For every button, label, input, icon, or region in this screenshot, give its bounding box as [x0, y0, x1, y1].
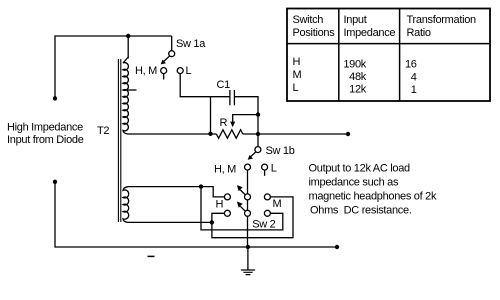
switch Sw 1b arrowhead [248, 155, 253, 160]
node: junction dot A (secondary top) [199, 184, 203, 188]
transformer T2 secondary winding [123, 187, 129, 223]
node: junction dot at R right / Sw 1b [256, 132, 260, 136]
node: ground bus right end dot [335, 245, 339, 249]
svg-text:190k: 190k [343, 58, 366, 70]
wire: output bus right of R [243, 133, 348, 135]
wire: junction A to Sw 2a H contact [201, 187, 225, 197]
table header divider [287, 43, 490, 45]
wire: secondary top to junction A [127, 186, 201, 188]
svg-text:H, M: H, M [135, 65, 157, 77]
svg-text:R: R [220, 117, 228, 129]
wire: Sw 2 common down to ground bus [247, 216, 249, 247]
svg-text:impedance such as: impedance such as [309, 177, 399, 189]
switch Sw 1a pivot [169, 51, 175, 57]
node: wiper junction dot [256, 112, 260, 116]
ground symbol [241, 270, 255, 275]
svg-text:Sw 2: Sw 2 [252, 218, 275, 230]
switch Sw 2b contact H [224, 210, 230, 216]
switch Sw 1b contact H,M [245, 164, 251, 170]
node: junction dot B (secondary bottom) [210, 220, 214, 224]
switch Sw 2a pivot [245, 194, 251, 200]
svg-text:Switch: Switch [293, 14, 324, 26]
table column divider 2 [399, 9, 401, 102]
svg-text:Ratio: Ratio [407, 27, 431, 39]
transformer T2 primary winding [123, 57, 128, 134]
wire: junction A loop to Sw 2b M contact [201, 187, 283, 230]
node: junction dot top rail to transformer primary [126, 34, 130, 38]
wire: secondary bottom to junction B [128, 221, 212, 223]
svg-text:H, M: H, M [214, 163, 236, 175]
node: output terminal dot [346, 132, 350, 136]
node: junction dot at R left end [208, 132, 212, 136]
svg-text:L: L [293, 82, 299, 94]
switch Sw 1a contact H,M [161, 68, 167, 74]
svg-text:Impedance: Impedance [344, 27, 396, 39]
wire: Sw 1a H,M contact stub [163, 74, 165, 80]
svg-text:Input: Input [344, 14, 367, 26]
svg-text:High Impedance: High Impedance [7, 122, 83, 134]
svg-text:L: L [186, 65, 192, 77]
switch Sw 2a contact M [264, 194, 270, 200]
table: switch positions [287, 9, 490, 102]
svg-text:T2: T2 [97, 125, 109, 137]
wire: C1 right plate to Sw 1b vertical [234, 97, 258, 147]
wire: Sw 1b H,M contact down to Sw 2 common [247, 170, 249, 194]
svg-text:Sw 1a: Sw 1a [176, 38, 206, 50]
node: ground bus junction dot [246, 245, 250, 249]
arrowhead: wiper arrow onto R [230, 122, 235, 128]
wire: junction B up to Sw 2b H contact [212, 213, 225, 222]
node: input - terminal dot [53, 180, 57, 184]
wire: primary tap stub [123, 89, 136, 91]
switch Sw 1b wiper arm [249, 152, 256, 158]
switch Sw 2b pivot [245, 210, 251, 216]
switch Sw 2a arrowhead [237, 185, 243, 191]
svg-text:C1: C1 [217, 79, 231, 91]
wire: Sw 2 common between poles [247, 200, 249, 211]
switch Sw 2b contact M [264, 210, 270, 216]
svg-text:12k: 12k [349, 84, 367, 96]
wire: junction B loop to Sw 2a M contact [212, 197, 293, 238]
svg-text:magnetic headphones of 2k: magnetic headphones of 2k [309, 191, 437, 203]
svg-text:Output to 12k AC load: Output to 12k AC load [309, 163, 411, 175]
wire: ground stem [247, 247, 249, 270]
svg-text:Positions: Positions [293, 27, 336, 39]
svg-text:Ohms DC resistance.: Ohms DC resistance. [310, 205, 412, 217]
switch Sw 1a arrowhead [161, 60, 166, 65]
svg-text:M: M [273, 198, 282, 210]
wire: Sw 1b L contact stub [264, 170, 266, 176]
svg-text:1: 1 [411, 84, 417, 96]
wire: input bottom lead and ground bus [55, 182, 337, 247]
svg-text:Input from Diode: Input from Diode [7, 134, 84, 146]
wire: Sw 1a L contact to C1 / R node [180, 74, 230, 97]
wire: potentiometer wiper lead [233, 115, 258, 122]
wire: output bus left of R [127, 133, 216, 135]
switch Sw 1a wiper arm [163, 56, 170, 63]
svg-text:48k: 48k [349, 71, 367, 83]
svg-text:M: M [293, 69, 302, 81]
transformer T2 core [118, 59, 120, 222]
capacitor C1 [230, 90, 235, 105]
node: input + terminal dot [53, 96, 57, 100]
resistor R zigzag [216, 130, 243, 138]
table column divider 1 [338, 9, 340, 102]
svg-text:L: L [271, 163, 277, 175]
svg-text:H: H [293, 56, 301, 68]
switch Sw 2a wiper arm [240, 190, 245, 195]
svg-text:H: H [216, 199, 224, 211]
switch Sw 1b pivot [255, 147, 261, 153]
switch Sw 2b wiper arm [240, 206, 245, 211]
wire: top rail down to primary winding [127, 36, 129, 59]
label minus sign on ground bus [148, 255, 155, 257]
wire: drop to Sw 1a pivot [171, 36, 173, 51]
switch Sw 2a contact H [224, 194, 230, 200]
svg-text:Sw 1b: Sw 1b [266, 145, 295, 157]
wire: drop from L wire to output bus [210, 97, 212, 134]
svg-text:Transformation: Transformation [407, 14, 477, 26]
svg-text:16: 16 [405, 59, 417, 71]
wire: input top lead to top rail [55, 36, 172, 98]
switch Sw 2b arrowhead [237, 202, 243, 208]
switch Sw 1a contact L [177, 68, 183, 74]
switch Sw 1b contact L [262, 164, 268, 170]
svg-text:4: 4 [411, 71, 417, 83]
